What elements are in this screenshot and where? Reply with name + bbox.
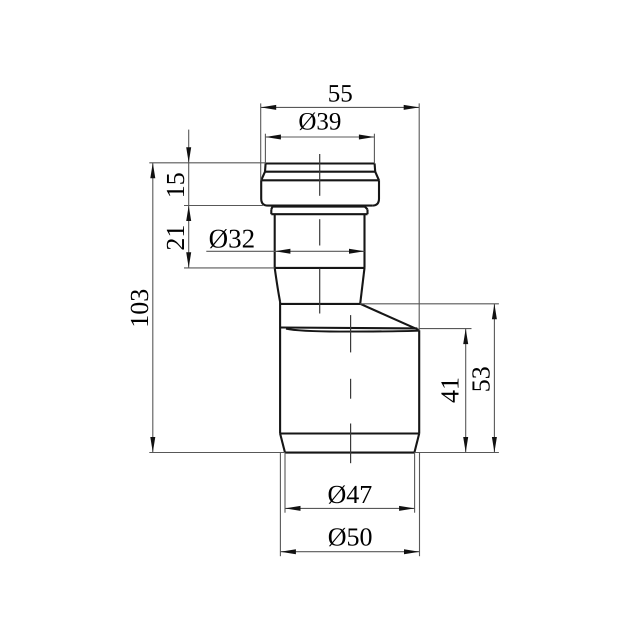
arrow 53 top xyxy=(492,304,497,320)
centerline bottom body xyxy=(350,315,352,463)
svg-text:53: 53 xyxy=(466,366,495,392)
collar right side xyxy=(366,209,368,214)
dimension line d32 xyxy=(206,250,364,252)
body left edge xyxy=(279,302,281,434)
extension line bell top left xyxy=(149,162,265,164)
arrow 53 bottom xyxy=(492,437,497,453)
extension line d47 right xyxy=(414,453,416,513)
bell left side with fillet xyxy=(261,180,268,205)
extension line pipe bottom left xyxy=(184,267,275,269)
bell left chamfer xyxy=(261,172,265,181)
svg-text:Ø32: Ø32 xyxy=(209,223,256,253)
bell bottom edge xyxy=(268,205,372,207)
arrow d47 left xyxy=(285,506,301,511)
extension line body bottom right xyxy=(415,452,499,454)
body chamfer line xyxy=(280,432,419,434)
extension line body bottom left xyxy=(149,452,285,454)
body bottom edge xyxy=(285,452,414,454)
arrow 15 top outside xyxy=(186,147,191,163)
svg-text:Ø47: Ø47 xyxy=(328,480,373,509)
shoulder line xyxy=(280,303,360,305)
svg-text:21: 21 xyxy=(161,225,190,251)
svg-text:55: 55 xyxy=(328,81,353,108)
dimension line 53 xyxy=(493,304,495,453)
collar bottom edge xyxy=(271,213,367,215)
arrow 103 top xyxy=(150,163,155,179)
svg-text:15: 15 xyxy=(161,172,190,198)
bell band line xyxy=(265,171,375,173)
dimension line 41 xyxy=(465,329,467,453)
centerline top pipe xyxy=(319,154,321,314)
arrow 41 top xyxy=(463,329,468,345)
arrow d32 right xyxy=(349,249,365,254)
arrow d39 right xyxy=(359,135,375,140)
bell right side with fillet xyxy=(372,180,379,205)
body right bottom chamfer xyxy=(414,434,419,453)
body mouth top lip xyxy=(280,326,417,329)
arrow d50 right xyxy=(404,549,420,554)
eccentric slope xyxy=(360,304,419,330)
cone left edge xyxy=(275,268,280,302)
extension line d50 right xyxy=(419,453,421,557)
extension line d47 left xyxy=(284,453,286,513)
svg-text:103: 103 xyxy=(125,289,154,328)
arrow d47 right xyxy=(399,506,415,511)
arrow 103 bottom xyxy=(150,437,155,453)
pipe bottom edge xyxy=(275,267,365,269)
arrow 55 left xyxy=(261,105,277,110)
bell full-width line xyxy=(261,179,379,181)
arrow 21 top xyxy=(186,206,191,222)
body mouth bottom lip xyxy=(286,329,419,332)
svg-text:Ø50: Ø50 xyxy=(328,523,373,552)
dimension line 15 outside tail xyxy=(188,130,190,206)
extension line d39 left xyxy=(264,134,266,163)
bell rim left side xyxy=(264,164,267,172)
collar right chamfer xyxy=(365,207,368,210)
arrow d50 left xyxy=(280,549,296,554)
body right edge xyxy=(418,330,420,433)
extension line bell bottom left xyxy=(184,205,263,207)
extension line mouth right xyxy=(419,328,472,330)
collar left side xyxy=(270,209,272,214)
svg-text:Ø39: Ø39 xyxy=(298,109,341,136)
dimension line d50 xyxy=(280,551,419,553)
bell rim top edge xyxy=(266,162,375,164)
dimension line d39 xyxy=(265,136,374,138)
bell right chamfer xyxy=(375,172,379,181)
dimension line 55 xyxy=(261,106,420,108)
pipe right wall xyxy=(363,214,365,268)
arrow 21 bottom xyxy=(186,252,191,267)
extension line 55 left xyxy=(260,103,262,180)
body left bottom chamfer xyxy=(280,434,285,453)
collar top edge xyxy=(273,206,365,208)
extension line 55 right xyxy=(418,103,420,330)
cone right edge xyxy=(360,268,364,304)
svg-text:41: 41 xyxy=(436,377,465,403)
bell rim right side xyxy=(374,164,377,172)
extension line shoulder right xyxy=(360,303,499,305)
dimension line d47 xyxy=(285,507,415,509)
arrow 41 bottom xyxy=(463,437,468,453)
arrow d32 left xyxy=(275,249,291,254)
arrow 55 right xyxy=(404,105,420,110)
arrow d39 left xyxy=(265,135,281,140)
dimension line 21 xyxy=(188,206,190,268)
dimension line 103 xyxy=(152,163,154,453)
extension line d50 left xyxy=(279,453,281,557)
pipe left wall xyxy=(274,214,276,268)
collar left chamfer xyxy=(271,207,272,210)
extension line d39 right xyxy=(373,134,375,163)
